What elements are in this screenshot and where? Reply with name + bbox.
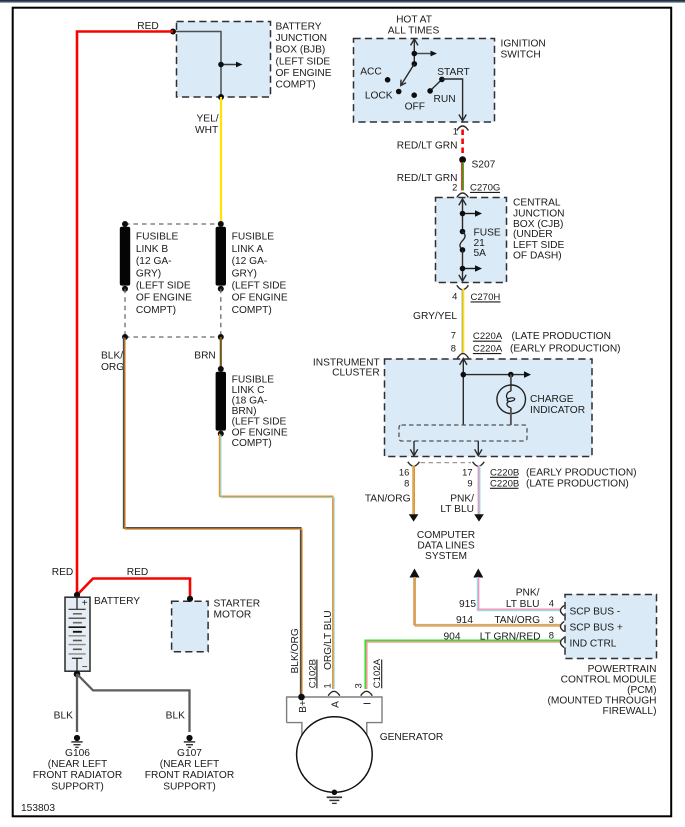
svg-text:GRY): GRY): [136, 268, 161, 279]
svg-text:START: START: [437, 67, 469, 78]
pin 7 / C220A late: [451, 330, 611, 342]
wire RED battery to starter: [77, 579, 190, 598]
node: BJB output: [218, 94, 224, 100]
generator ground: [327, 790, 342, 804]
label YEL/WHT: [195, 113, 219, 136]
svg-text:OFF: OFF: [405, 102, 425, 113]
svg-text:(EARLY PRODUCTION): (EARLY PRODUCTION): [526, 467, 637, 478]
node battery negative: [74, 671, 81, 678]
PCM box: [565, 595, 657, 659]
svg-text:STARTER: STARTER: [214, 599, 261, 610]
svg-text:9: 9: [467, 477, 472, 488]
connector C220B late: [490, 478, 629, 489]
svg-text:1: 1: [321, 683, 332, 688]
svg-text:TAN/ORG: TAN/ORG: [494, 615, 540, 626]
ignition feed arrow up: [411, 39, 418, 64]
svg-text:A: A: [331, 701, 342, 708]
splice S207: [459, 156, 495, 170]
svg-text:CHARGE: CHARGE: [530, 394, 574, 405]
svg-text:BLK/ORG: BLK/ORG: [290, 628, 301, 673]
svg-text:SCP BUS -: SCP BUS -: [570, 606, 621, 617]
svg-text:CLUSTER: CLUSTER: [332, 368, 380, 379]
svg-text:GENERATOR: GENERATOR: [380, 732, 444, 743]
svg-text:(12 GA-: (12 GA-: [136, 256, 172, 267]
battery: [65, 597, 90, 673]
battery junction box BJB: [177, 22, 271, 98]
inner module dashed box: [399, 425, 527, 441]
top window bar: [0, 0, 685, 2]
wire PNK/LT BLU from PCM pin 4: [477, 577, 561, 611]
svg-text:LT BLU: LT BLU: [506, 599, 540, 610]
svg-text:(LEFT SIDE: (LEFT SIDE: [276, 56, 331, 67]
svg-text:FUSE: FUSE: [474, 227, 501, 238]
svg-text:INDICATOR: INDICATOR: [530, 405, 585, 416]
svg-text:COMPT): COMPT): [136, 305, 176, 316]
svg-text:(LEFT SIDE: (LEFT SIDE: [232, 417, 287, 428]
pin 8 / C220A early: [451, 343, 621, 355]
svg-text:FIREWALL): FIREWALL): [603, 706, 657, 717]
svg-text:(PCM): (PCM): [627, 685, 656, 696]
svg-text:ALL TIMES: ALL TIMES: [388, 25, 440, 36]
svg-text:2: 2: [452, 182, 457, 193]
contact LOCK: [396, 89, 402, 95]
svg-text:8: 8: [549, 629, 554, 640]
svg-text:SYSTEM: SYSTEM: [425, 551, 467, 562]
ignition branch arrow: [412, 51, 438, 57]
svg-text:FRONT RADIATOR: FRONT RADIATOR: [33, 770, 122, 781]
svg-text:(18 GA-: (18 GA-: [232, 396, 268, 407]
fusible link C: [216, 366, 226, 437]
svg-text:5A: 5A: [474, 248, 487, 259]
fusible link A: [216, 221, 226, 292]
central junction box CJB: [436, 198, 507, 283]
svg-text:4: 4: [549, 598, 554, 609]
svg-text:(LEFT SIDE: (LEFT SIDE: [136, 281, 191, 292]
svg-text:IGNITION: IGNITION: [501, 38, 546, 49]
svg-text:BLK: BLK: [54, 710, 73, 721]
label BLK/ORG: [101, 350, 124, 373]
RUN-START lever: [427, 77, 444, 94]
svg-text:C220A: C220A: [473, 331, 503, 342]
svg-text:(LATE PRODUCTION: (LATE PRODUCTION: [512, 331, 611, 342]
STARTER MOTOR label: [214, 599, 261, 621]
svg-text:RED/LT GRN: RED/LT GRN: [397, 141, 458, 152]
CJB label: [513, 198, 565, 262]
charge indicator lamp: [497, 375, 526, 425]
BJB internal arrow: [218, 62, 242, 68]
label HOT AT ALL TIMES: [388, 15, 440, 37]
cluster branch arrow: [461, 371, 532, 378]
svg-text:LT BLU: LT BLU: [440, 504, 474, 515]
svg-text:RED: RED: [52, 567, 74, 578]
fusible link C label: [232, 374, 288, 449]
svg-text:PNK/: PNK/: [450, 494, 474, 505]
pins 16/8: [399, 466, 409, 488]
svg-text:BLK: BLK: [166, 710, 185, 721]
pins 17/9: [462, 466, 472, 488]
svg-text:RED: RED: [127, 567, 149, 578]
cluster exit arrow left: [410, 441, 417, 456]
ground G107: [184, 735, 195, 747]
svg-text:CENTRAL: CENTRAL: [513, 198, 561, 209]
svg-text:SUPPORT): SUPPORT): [51, 781, 103, 792]
svg-text:LINK C: LINK C: [232, 385, 265, 396]
svg-text:LT GRN/RED: LT GRN/RED: [480, 632, 541, 643]
svg-text:FRONT RADIATOR: FRONT RADIATOR: [145, 770, 234, 781]
svg-text:OF ENGINE: OF ENGINE: [232, 427, 288, 438]
wire RED/LT GRN dashed: [461, 130, 464, 157]
svg-text:S207: S207: [472, 159, 496, 170]
svg-text:SWITCH: SWITCH: [501, 49, 541, 60]
CHARGE INDICATOR label: [530, 394, 585, 416]
CJB exit arrow down: [459, 275, 466, 281]
svg-text:RUN: RUN: [434, 94, 456, 105]
svg-text:(12 GA-: (12 GA-: [232, 256, 268, 267]
svg-text:G107: G107: [177, 748, 202, 759]
svg-text:PNK/: PNK/: [516, 588, 540, 599]
PCM pin connectors: [560, 605, 564, 647]
connector C102B rotated: [307, 659, 318, 688]
svg-text:914: 914: [456, 615, 473, 626]
svg-text:LINK B: LINK B: [136, 244, 168, 255]
circuit 914 labels: [456, 614, 554, 626]
instrument cluster box: [385, 359, 593, 457]
CJB entry arrow up: [459, 199, 466, 232]
svg-text:(UNDER: (UNDER: [513, 229, 553, 240]
svg-text:BLK/: BLK/: [101, 350, 123, 361]
svg-text:(LATE PRODUCTION): (LATE PRODUCTION): [526, 478, 629, 489]
svg-text:(NEAR LEFT: (NEAR LEFT: [160, 759, 219, 770]
svg-text:(EARLY PRODUCTION): (EARLY PRODUCTION): [510, 344, 621, 355]
svg-text:WHT: WHT: [195, 125, 218, 136]
wire RED battery to BJB: [77, 32, 173, 597]
svg-text:904: 904: [444, 632, 461, 643]
circuit 915 labels: [459, 588, 554, 610]
svg-text:MOTOR: MOTOR: [214, 609, 252, 620]
generator terminal names rotated: [298, 700, 373, 713]
svg-text:COMPT): COMPT): [232, 438, 272, 449]
svg-text:3: 3: [353, 683, 364, 688]
svg-text:IND CTRL: IND CTRL: [570, 639, 617, 650]
svg-text:LEFT SIDE: LEFT SIDE: [513, 240, 565, 251]
svg-text:7: 7: [451, 330, 456, 341]
svg-text:COMPT): COMPT): [276, 80, 316, 91]
svg-text:16: 16: [399, 466, 409, 477]
cluster entry arrow up: [460, 359, 467, 426]
connector C220B early: [490, 467, 637, 478]
svg-text:(NEAR LEFT: (NEAR LEFT: [48, 759, 107, 770]
svg-text:B+: B+: [298, 700, 309, 713]
CJB branch arrow 2: [460, 250, 482, 280]
svg-text:C270G: C270G: [470, 182, 500, 193]
fusible link B label: [136, 232, 192, 316]
svg-text:RED/LT GRN: RED/LT GRN: [397, 173, 458, 184]
svg-text:17: 17: [462, 466, 472, 477]
node generator B+: [298, 694, 305, 701]
connector C270G: [457, 182, 501, 197]
wire inside BJB: [173, 32, 221, 98]
wire LT GRN/RED PCM pin 8 to generator I: [365, 640, 560, 689]
node: BJB red feed: [170, 29, 176, 35]
svg-text:G106: G106: [65, 748, 90, 759]
svg-text:I: I: [362, 702, 373, 705]
CJB branch arrow 1: [460, 210, 482, 217]
generator body: [287, 697, 382, 792]
contact OFF: [411, 92, 417, 98]
up arrow TAN/ORG to data lines: [410, 569, 420, 578]
node battery positive: [74, 592, 80, 598]
wire PNK/LT BLU down arrow: [474, 466, 484, 522]
ground G106: [71, 735, 82, 747]
fusible link B: [120, 221, 130, 292]
wire TAN/ORG down arrow: [409, 466, 419, 522]
connector pair below cluster: [408, 462, 484, 467]
switch lever to LOCK: [401, 64, 415, 86]
svg-text:JUNCTION: JUNCTION: [276, 33, 328, 44]
label PNK/LT BLU: [440, 494, 474, 516]
svg-text:8: 8: [451, 343, 456, 354]
starter motor box: [172, 601, 209, 651]
INSTRUMENT CLUSTER label: [313, 357, 380, 378]
svg-text:153803: 153803: [21, 803, 55, 814]
svg-text:LINK A: LINK A: [232, 244, 264, 255]
svg-text:OF ENGINE: OF ENGINE: [136, 293, 192, 304]
svg-text:BATTERY: BATTERY: [276, 21, 322, 32]
connector C102A rotated: [372, 658, 383, 688]
svg-text:C220A: C220A: [473, 344, 503, 355]
wire ORG/LT BLU link C to generator A: [220, 434, 335, 689]
label COMPUTER DATA LINES SYSTEM: [417, 530, 475, 562]
node switch pivot: [412, 61, 418, 67]
svg-text:FUSIBLE: FUSIBLE: [232, 374, 275, 385]
connector arc at I terminal: [361, 691, 373, 696]
svg-text:ORG/LT BLU: ORG/LT BLU: [323, 610, 334, 670]
svg-text:(LEFT SIDE: (LEFT SIDE: [232, 281, 287, 292]
G106 label: [33, 748, 122, 793]
connector arc at A terminal: [328, 691, 340, 696]
up arrow PNK/LT BLU to data lines: [473, 569, 483, 578]
svg-text:BOX (CJB): BOX (CJB): [513, 219, 563, 230]
svg-text:FUSIBLE: FUSIBLE: [232, 232, 275, 243]
connector at cluster entry: [457, 354, 469, 359]
cluster exit arrow right: [475, 441, 482, 456]
node below link B: [122, 334, 128, 340]
svg-text:C270H: C270H: [471, 292, 501, 303]
fuse 21 5A: [460, 227, 501, 259]
svg-text:8: 8: [404, 477, 409, 488]
wire TAN/ORG from PCM pin 3: [414, 577, 561, 626]
svg-text:C220B: C220B: [490, 467, 519, 478]
svg-text:HOT AT: HOT AT: [396, 15, 432, 26]
contact ACC: [385, 77, 391, 83]
PCM pin names: [570, 606, 623, 649]
svg-text:GRY/YEL: GRY/YEL: [413, 311, 457, 322]
svg-text:1: 1: [453, 125, 458, 136]
wire BLK to G107: [77, 674, 190, 732]
wire RED/LT GRN solid pair: [462, 162, 463, 191]
svg-text:OF ENGINE: OF ENGINE: [276, 68, 332, 79]
svg-text:SUPPORT): SUPPORT): [163, 781, 215, 792]
svg-text:COMPT): COMPT): [232, 305, 272, 316]
wire START to pin 1 with down arrow: [442, 79, 466, 121]
dashed link between fusible link tops: [125, 223, 221, 225]
wire BLK to G106: [76, 674, 78, 732]
svg-text:ORG: ORG: [101, 362, 124, 373]
wire BRN: [220, 337, 222, 369]
connector at ignition pin 1: [457, 126, 469, 131]
svg-text:SCP BUS +: SCP BUS +: [570, 622, 623, 633]
dashed wires below links: [125, 289, 221, 337]
svg-text:BOX (BJB): BOX (BJB): [276, 45, 326, 56]
svg-text:OF ENGINE: OF ENGINE: [232, 293, 288, 304]
svg-text:YEL/: YEL/: [197, 113, 219, 124]
svg-text:3: 3: [549, 614, 554, 625]
node below link A: [218, 334, 224, 340]
svg-text:DATA LINES: DATA LINES: [417, 541, 475, 552]
svg-text:JUNCTION: JUNCTION: [513, 208, 565, 219]
svg-text:BRN: BRN: [194, 350, 216, 361]
BJB label: [276, 21, 332, 90]
wire BLK/ORG to generator B+: [124, 337, 302, 697]
fusible link A label: [232, 232, 288, 316]
wire YEL/WHT: [220, 97, 222, 224]
svg-text:C220B: C220B: [490, 478, 519, 489]
IGNITION SWITCH label: [501, 38, 546, 60]
svg-text:915: 915: [459, 599, 476, 610]
svg-text:GRY): GRY): [232, 268, 257, 279]
svg-text:COMPUTER: COMPUTER: [417, 530, 475, 541]
svg-text:BATTERY: BATTERY: [94, 596, 140, 607]
svg-text:BRN): BRN): [232, 406, 257, 417]
svg-text:OF DASH): OF DASH): [513, 250, 562, 261]
svg-text:(MOUNTED THROUGH: (MOUNTED THROUGH: [547, 696, 656, 707]
connector C270H: [457, 285, 501, 303]
svg-text:LOCK: LOCK: [365, 90, 393, 101]
svg-text:POWERTRAIN: POWERTRAIN: [588, 664, 657, 675]
svg-text:4: 4: [452, 291, 457, 302]
svg-text:FUSIBLE: FUSIBLE: [136, 232, 179, 243]
svg-text:+: +: [82, 598, 88, 609]
svg-text:CONTROL MODULE: CONTROL MODULE: [561, 675, 657, 686]
ignition switch box: [354, 39, 495, 123]
generator terminal labels rotated: [290, 628, 301, 673]
PCM label: [547, 664, 656, 717]
node starter feed: [187, 596, 193, 602]
wire GRY/YEL: [462, 289, 463, 354]
svg-text:ACC: ACC: [360, 66, 382, 77]
svg-text:TAN/ORG: TAN/ORG: [365, 494, 411, 505]
circuit 904 labels: [444, 629, 554, 642]
svg-text:−: −: [82, 662, 88, 673]
G107 label: [145, 748, 234, 793]
